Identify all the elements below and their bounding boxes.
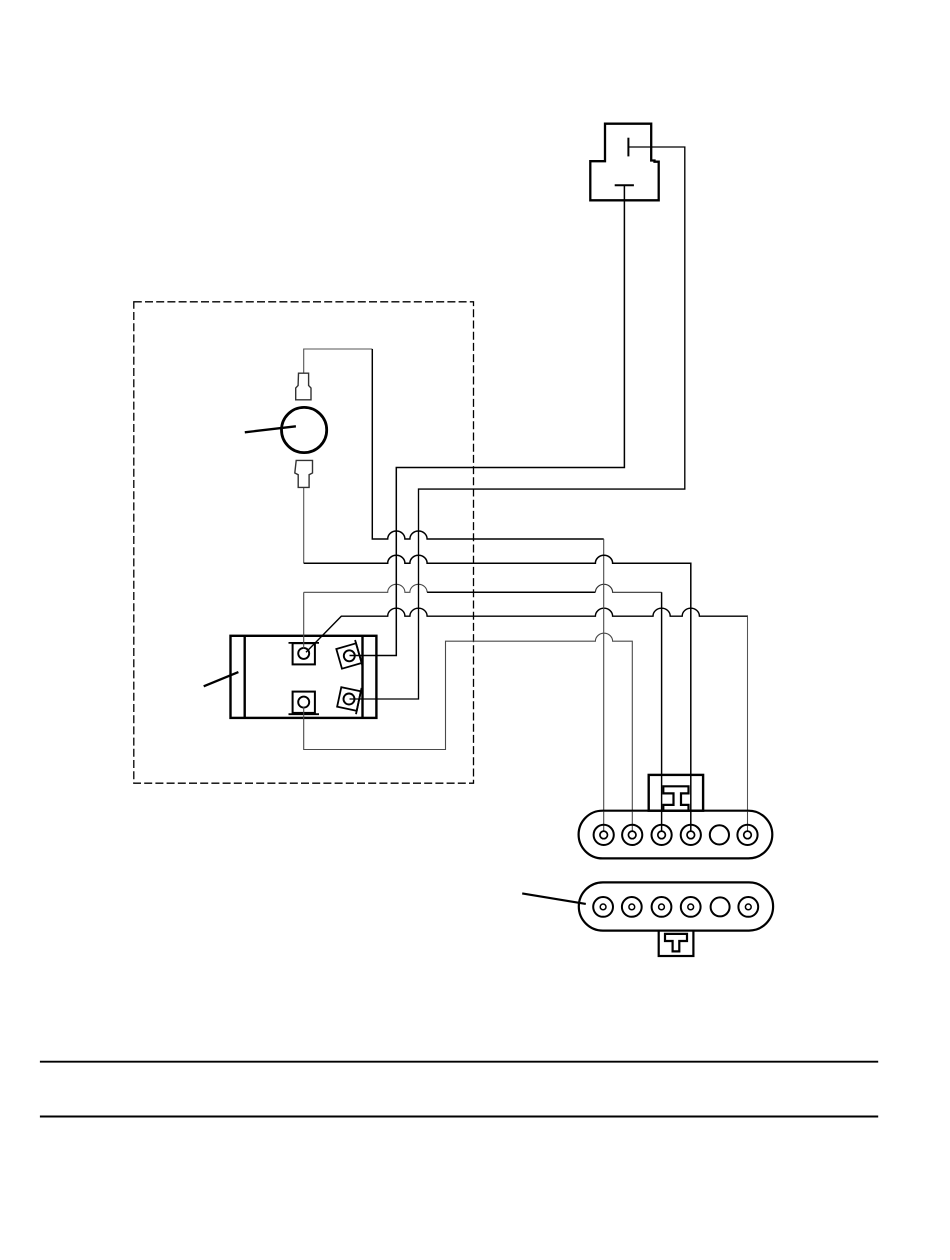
plug connector (top) <box>590 124 658 201</box>
wire bus1 to hole 1 <box>372 349 603 539</box>
dashed harness boundary box <box>134 302 474 783</box>
wire B: plug tab to T4 <box>350 147 685 699</box>
spade terminal below circle <box>295 460 313 487</box>
wire hole-1 drop <box>603 539 605 831</box>
pointer to strip 2 <box>522 893 586 904</box>
terminal T1 (top-left) <box>289 643 320 665</box>
footer rule 2 <box>40 1116 878 1118</box>
wire bus3 right segment <box>595 584 661 592</box>
wire bus3 left segment <box>304 584 427 592</box>
T key glyph <box>665 934 687 952</box>
switch body <box>231 636 377 718</box>
wire hole-6 drop <box>747 616 749 831</box>
pointer to circle <box>245 426 296 432</box>
terminal T2 (top-right, rotated) <box>335 640 362 672</box>
pointer to switch <box>204 672 239 686</box>
footer rule 1 <box>40 1061 878 1063</box>
I key glyph <box>663 786 688 810</box>
terminal T3 (bottom-left) <box>289 692 320 715</box>
strip 2 holes <box>593 897 758 917</box>
ignition coil circle <box>282 407 327 452</box>
wire bus4 from T1 to hole 6 <box>306 608 748 652</box>
wire A: plug pin to T2 <box>350 185 625 655</box>
plug bottom pin <box>615 184 634 186</box>
ignition module circle pigtail bottom wire <box>303 487 305 563</box>
ignition module circle pigtail top wire <box>304 349 373 373</box>
wire jumper upper segment into T1 <box>303 592 305 648</box>
wire hole-3 drop <box>661 592 663 831</box>
T bracket below strip 2 <box>659 931 694 956</box>
I bracket above strip 1 <box>649 775 703 811</box>
wire jumper lower loop T3 to hole 2 <box>304 633 633 831</box>
strip 1 holes <box>594 825 758 845</box>
terminal T4 (bottom-right, rotated) <box>336 684 361 714</box>
wire bus3 middle segment <box>427 591 595 593</box>
connector strip 1 (top) <box>579 811 773 859</box>
wire bus2 to hole 4 <box>304 555 691 831</box>
spade terminal above circle <box>296 373 311 400</box>
plug inner pin <box>627 138 629 157</box>
redraw wire ends over strip <box>604 776 748 831</box>
connector strip 2 (bottom) <box>579 882 773 930</box>
